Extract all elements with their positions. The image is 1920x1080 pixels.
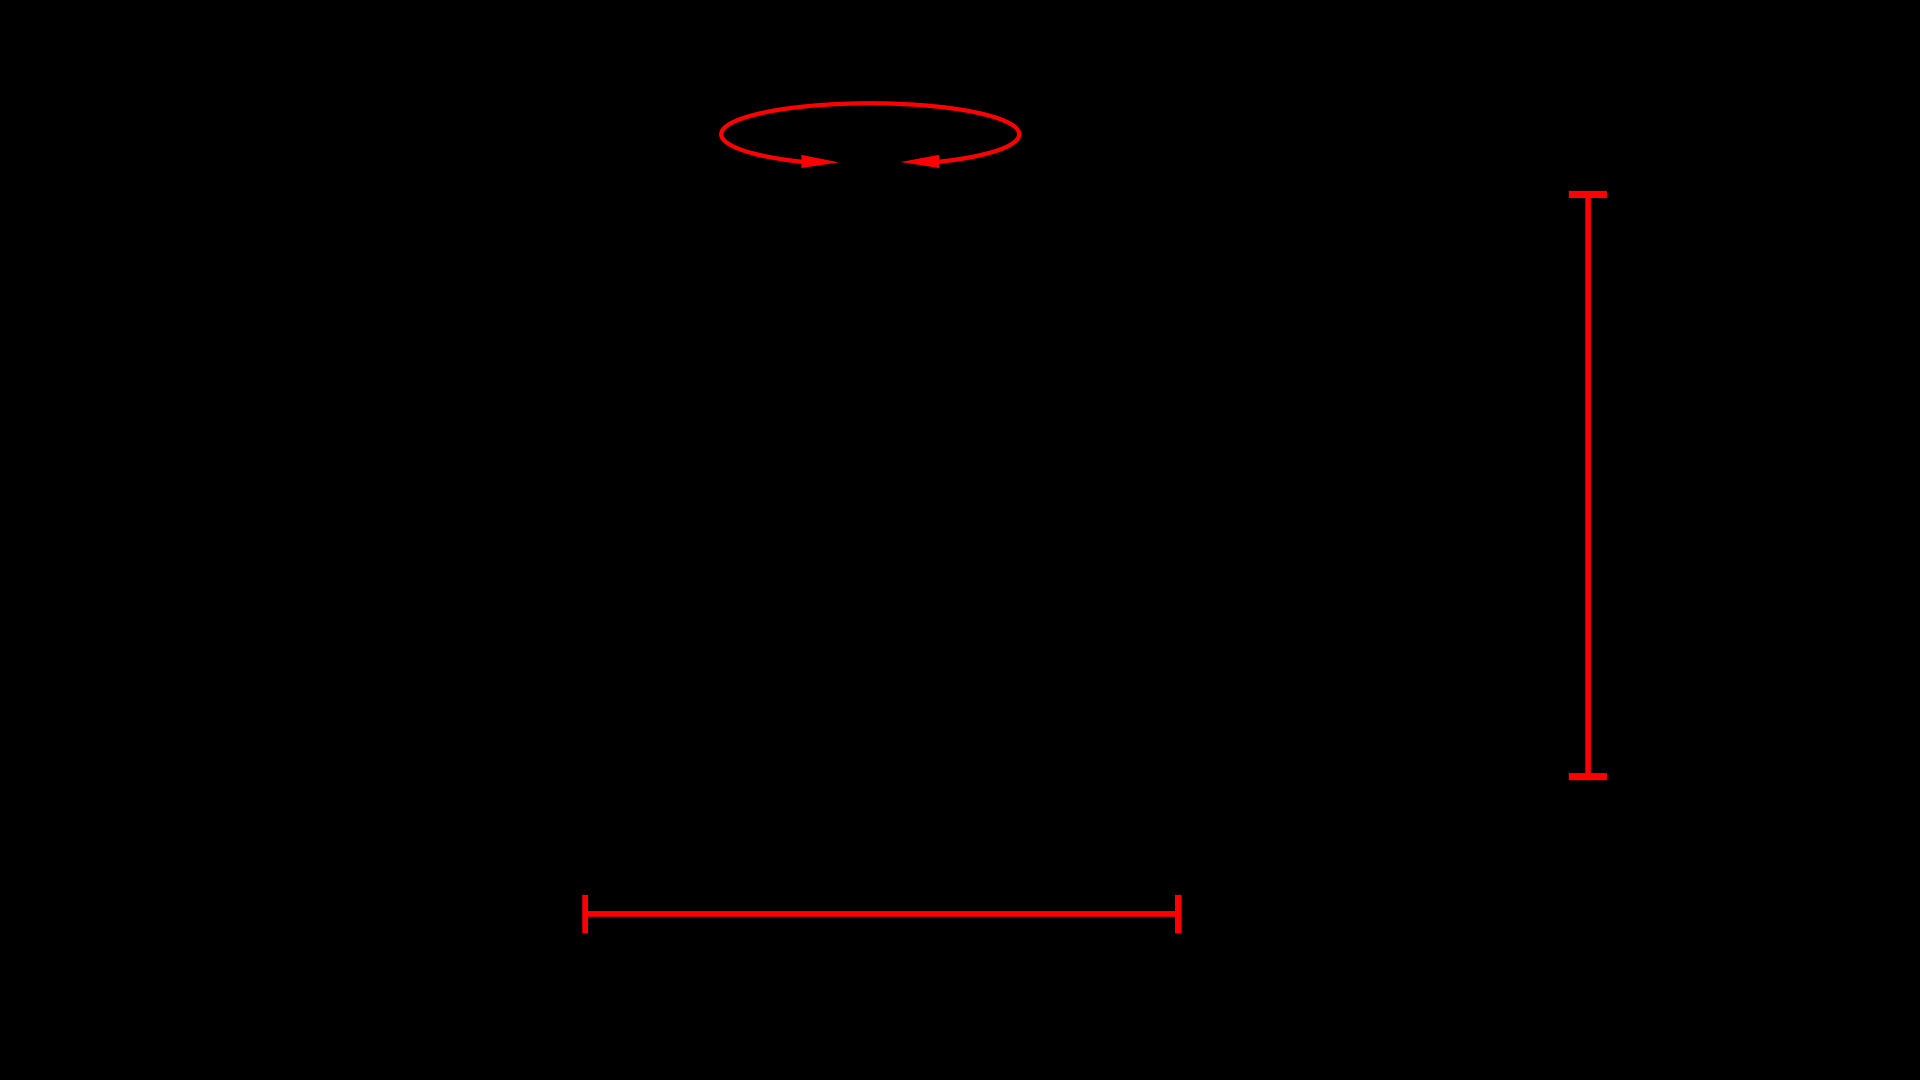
rotation arrow ellipse (721, 103, 1019, 162)
horizontal dimension line right bar (1175, 895, 1182, 933)
horizontal dimension line (585, 911, 1178, 917)
vertical dimension line top bar (1569, 191, 1607, 198)
vertical dimension line bottom bar (1569, 773, 1607, 780)
right arrowhead (901, 155, 940, 168)
left arrowhead (801, 155, 839, 168)
vertical dimension line stem (1585, 194, 1591, 776)
horizontal dimension line left bar (582, 895, 588, 933)
